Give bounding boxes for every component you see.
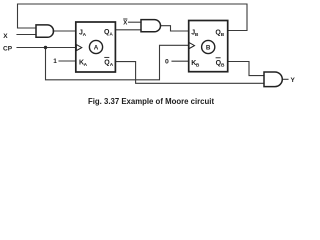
svg-text:B: B <box>196 63 200 69</box>
svg-text:B: B <box>221 32 225 38</box>
svg-text:CP: CP <box>3 45 13 52</box>
svg-text:A: A <box>84 62 88 68</box>
svg-text:X: X <box>3 33 8 40</box>
svg-text:Y: Y <box>291 77 296 84</box>
svg-text:B: B <box>221 63 225 69</box>
svg-text:X: X <box>123 21 127 27</box>
svg-text:B: B <box>195 32 199 38</box>
svg-text:A: A <box>110 62 114 68</box>
svg-text:A: A <box>83 32 87 38</box>
svg-text:1: 1 <box>53 58 57 65</box>
svg-text:A: A <box>94 44 99 51</box>
svg-text:B: B <box>206 44 211 51</box>
svg-text:0: 0 <box>165 59 169 66</box>
svg-text:Fig. 3.37 Example of Moore cir: Fig. 3.37 Example of Moore circuit <box>88 97 214 106</box>
svg-text:A: A <box>109 32 113 38</box>
